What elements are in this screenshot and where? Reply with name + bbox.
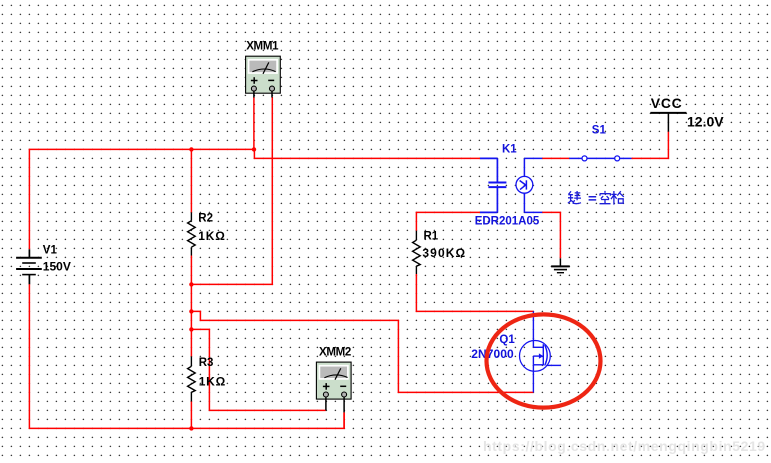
svg-text:K1: K1 [502,143,517,155]
svg-text:R3: R3 [199,357,214,369]
node junction at XMM1 left [252,147,256,151]
node junction bottom rail [189,426,193,430]
svg-text:390KΩ: 390KΩ [422,246,466,260]
wire: R1 bottom to Q1 drain [416,274,533,311]
ground [551,258,570,272]
node junction gate net [189,309,193,313]
resistor R3 [188,356,226,401]
wire: R3 bottom to bottom rail [190,402,192,429]
node junction XMM2 net [189,327,193,331]
svg-text:S1: S1 [592,124,607,136]
svg-text:Q1: Q1 [499,334,515,346]
wire: reed top to S1 [542,157,569,159]
svg-text:https://blog.csdn.net/mengqing: https://blog.csdn.net/mengqingbin5219 [483,438,766,454]
switch S1 [569,124,631,161]
wire: node C to XMM2 left [191,329,326,410]
svg-text:150V: 150V [43,259,71,273]
multimeter XMM1 [246,41,281,98]
wire: XMM1 left lead [253,97,255,149]
wire: gate net from node B to Q1 source [191,311,533,392]
svg-text:VCC: VCC [651,95,683,111]
svg-text:12.0V: 12.0V [687,113,724,129]
annotation red ellipse around Q1 [487,314,601,407]
resistor R1 [413,231,467,275]
wire: V1 top to main top rail [29,149,254,249]
svg-text:1KΩ: 1KΩ [198,229,225,243]
svg-text:R1: R1 [424,231,439,243]
relay K1 coil [480,158,506,212]
node junction XMM1 right to R2 bottom [189,282,193,286]
svg-text:EDR201A05: EDR201A05 [475,216,540,228]
wire: top rail jog down to relay row [254,149,480,158]
resistor R2 [188,212,226,255]
relay K1 reed switch [475,143,543,227]
VCC power symbol [650,95,724,132]
wire: relay coil bottom to R1 top [416,212,480,230]
wire: R2 branch vertical [190,149,192,356]
label key = space [568,191,624,205]
svg-text:R2: R2 [198,213,213,225]
transistor Q1 2N7000 [471,311,561,392]
svg-text:XMM1: XMM1 [246,41,279,53]
wire: S1 to VCC drop [632,132,669,159]
svg-text:2N7000: 2N7000 [471,347,514,361]
multimeter XMM2 [316,347,351,413]
node A junction at R2 top rail [189,147,193,151]
wire: XMM1 right lead long vertical [191,97,272,284]
wire: bottom rail [29,284,344,428]
svg-text:XMM2: XMM2 [319,347,351,359]
wire: reed bottom to ground [542,212,560,258]
svg-text:V1: V1 [43,245,58,257]
wire: XMM2 right lead lower part [343,412,345,428]
svg-text:1KΩ: 1KΩ [199,375,226,389]
battery V1 [16,245,71,285]
